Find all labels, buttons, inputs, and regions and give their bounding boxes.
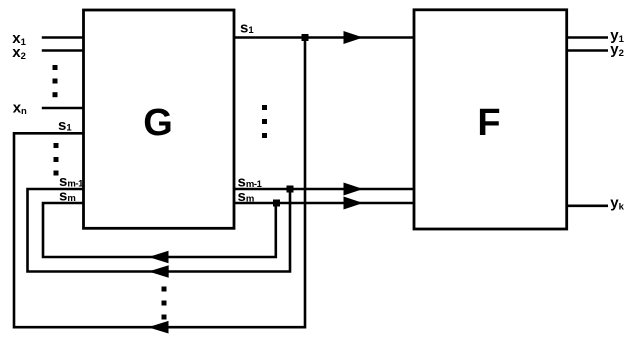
junction s1 — [302, 34, 309, 41]
wire input x1 — [42, 36, 84, 39]
wire input x2 — [42, 49, 84, 52]
ellipsis dots bottom — [162, 287, 167, 320]
junction sm — [273, 200, 280, 207]
arrowhead s1 into F — [344, 31, 364, 44]
wire s1 output of G — [234, 36, 414, 39]
block F — [414, 10, 567, 229]
svg-text:s1: s1 — [240, 19, 254, 36]
arrowhead feedback s1 — [148, 321, 169, 334]
wire sm-1 output of G — [234, 188, 414, 191]
arrowhead feedback sm — [149, 251, 169, 263]
wire output yk — [567, 205, 608, 208]
svg-text:yk: yk — [610, 194, 624, 212]
arrowhead sm into F — [344, 197, 364, 210]
wire output y1 — [567, 36, 608, 39]
svg-text:xn: xn — [13, 99, 27, 117]
block G — [84, 10, 235, 228]
feedback loop sm — [43, 203, 276, 257]
wire output y2 — [567, 49, 608, 52]
arrowhead sm-1 into F — [344, 183, 364, 196]
wire input xn — [42, 107, 84, 110]
svg-text:F: F — [477, 102, 500, 144]
ellipsis dots left inputs — [53, 65, 58, 97]
junction sm-1 — [287, 186, 294, 193]
feedback loop sm-1 — [28, 189, 291, 272]
svg-text:sm: sm — [238, 188, 255, 205]
ellipsis dots middle — [262, 105, 267, 138]
feedback loop s1 — [14, 38, 305, 328]
ellipsis dots left state — [54, 143, 59, 176]
svg-text:G: G — [143, 102, 173, 144]
wire sm output of G — [234, 202, 414, 205]
svg-text:s1: s1 — [58, 117, 72, 134]
arrowhead feedback sm-1 — [149, 265, 169, 277]
